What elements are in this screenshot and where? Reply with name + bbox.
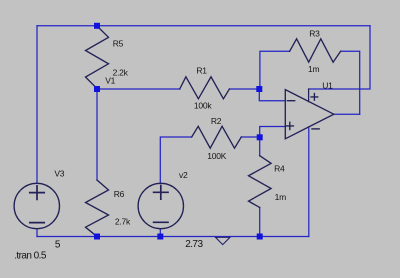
svg-text:R6: R6: [114, 189, 125, 199]
wire op-amp output: [334, 113, 360, 115]
wire R1 right to node: [229, 88, 259, 90]
svg-text:V3: V3: [54, 169, 64, 179]
wire V- drop: [308, 127, 310, 237]
resistor R3: [290, 39, 341, 62]
wire R3 right drop to output: [341, 51, 360, 114]
wire v2 top to R2: [160, 137, 191, 183]
node R1 right / inverting input: [256, 86, 262, 92]
svg-text:R4: R4: [274, 164, 285, 174]
node R4 bottom: [257, 234, 263, 240]
svg-text:V1: V1: [105, 76, 115, 86]
node V1: [94, 86, 100, 92]
voltage source V3: [14, 183, 59, 228]
voltage source v2: [138, 183, 183, 228]
node top rail R5: [94, 23, 100, 29]
wire R3 left drop: [260, 51, 290, 89]
svg-text:.tran 0.5: .tran 0.5: [14, 251, 47, 262]
svg-text:2.7k: 2.7k: [115, 217, 131, 227]
wire node to non-inverting input: [260, 127, 286, 138]
svg-text:100K: 100K: [207, 151, 226, 161]
op-amp V+ pin stub: [308, 89, 310, 102]
wire right drop to V+: [309, 26, 370, 89]
wire v2 bottom: [159, 229, 161, 237]
wire V3 bottom: [36, 229, 38, 237]
node R2 right / R4 top: [257, 134, 263, 140]
svg-text:100k: 100k: [194, 101, 212, 111]
op-amp U1: [285, 90, 334, 139]
op-amp V+ mark: [311, 94, 318, 101]
wire node V1 to R6 top: [96, 89, 98, 180]
svg-text:2.73: 2.73: [185, 239, 203, 250]
ground: [216, 237, 231, 244]
svg-text:1m: 1m: [275, 192, 286, 202]
node v2 bottom: [157, 234, 163, 240]
wire node V1 to R1: [97, 88, 180, 90]
wire node to R4 top: [259, 137, 261, 155]
wire R4 bottom to rail: [259, 208, 261, 237]
resistor R4: [249, 156, 272, 208]
resistor R2: [192, 126, 242, 148]
resistor R5: [86, 26, 109, 89]
op-amp non-inverting input mark: [286, 122, 293, 129]
svg-text:R3: R3: [309, 29, 320, 39]
wire left rail: [36, 26, 38, 184]
node R6 bottom: [94, 234, 100, 240]
svg-text:R5: R5: [113, 39, 124, 49]
svg-text:1m: 1m: [308, 64, 319, 74]
svg-text:v2: v2: [179, 170, 188, 180]
svg-text:R2: R2: [211, 116, 222, 126]
wire bottom rail: [37, 236, 309, 238]
op-amp inverting input mark: [287, 100, 294, 102]
wire node to inverting input: [259, 89, 285, 101]
wire top rail: [37, 25, 370, 27]
resistor R1: [180, 77, 230, 99]
svg-text:R1: R1: [196, 65, 207, 75]
wire R2 right to node: [241, 136, 259, 138]
resistor R6: [86, 180, 109, 237]
svg-text:U1: U1: [322, 81, 333, 91]
op-amp V- mark: [312, 128, 319, 130]
